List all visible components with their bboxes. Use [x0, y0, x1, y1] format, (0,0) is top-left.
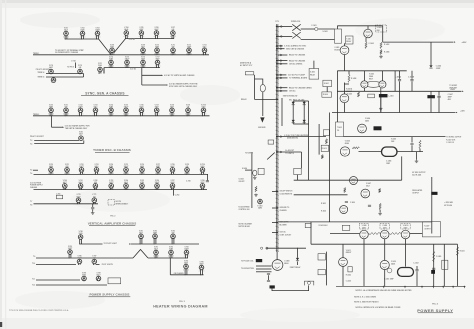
tube V-738 heater	[170, 108, 175, 116]
svg-text:6SN7: 6SN7	[139, 29, 143, 31]
resistor R-1429	[433, 251, 435, 262]
svg-text:B+ BOOST: B+ BOOST	[285, 150, 295, 152]
svg-text:T-8: T-8	[30, 204, 32, 206]
wire col a lower right	[433, 244, 435, 286]
wire reg right col	[431, 177, 433, 234]
tube pilot P-1401	[258, 199, 263, 204]
wire R-1416 bot	[419, 149, 421, 152]
wire V-1401A bottom	[343, 103, 345, 113]
svg-text:TO HORIZ. OUTPUT: TO HORIZ. OUTPUT	[446, 137, 461, 139]
svg-text:GROUND TO: GROUND TO	[280, 207, 290, 209]
wire V-1401 to rail	[344, 55, 346, 71]
tube V-1407c	[340, 206, 348, 214]
svg-text:6X30GT: 6X30GT	[334, 50, 340, 52]
wire strip stub y60.6	[278, 60, 287, 62]
terminal stub y63.8	[280, 63, 282, 65]
junction strip y60.6	[276, 60, 277, 61]
wire row-C left join	[103, 68, 105, 74]
svg-text:6SN7: 6SN7	[156, 166, 160, 168]
wire choke L-1403 col	[430, 98, 432, 112]
tube V-758 heater	[170, 168, 175, 175]
tube V-783 heater	[171, 234, 176, 244]
wire bridge top	[293, 100, 308, 102]
wire transformer top to rectifier	[337, 25, 382, 27]
svg-text:V-731: V-731	[64, 104, 68, 106]
svg-text:T-9: T-9	[33, 256, 35, 258]
svg-text:V-781: V-781	[139, 230, 143, 232]
wire stub 6.3 for tubes	[278, 136, 326, 138]
tube V-795 heater	[199, 265, 204, 275]
arrowhead +405V line	[454, 41, 456, 42]
wire left feeder col	[251, 152, 253, 208]
svg-text:TO UNIT B: TO UNIT B	[245, 153, 254, 155]
box K-1401 coil	[323, 80, 332, 86]
svg-text:CONTROL 500: CONTROL 500	[239, 209, 250, 211]
tube V-736 heater	[139, 108, 144, 116]
svg-text:POWER SUPPLY CHASSIS: POWER SUPPLY CHASSIS	[89, 293, 129, 297]
wire row-A left heater bus	[65, 38, 99, 40]
wire arrow line heater supply	[142, 84, 167, 86]
tube V-717 heater	[155, 60, 160, 68]
tube V-718 heater	[49, 69, 54, 74]
tube V-14010 series reg	[401, 230, 410, 239]
tube V-790 heater	[68, 250, 73, 259]
arrowhead section2	[63, 127, 65, 128]
tube V-709 heater	[141, 48, 146, 55]
caption underline section3	[89, 224, 135, 226]
wire section2 arrow line	[52, 126, 63, 128]
svg-text:V-753: V-753	[94, 164, 98, 166]
svg-text:6X8: 6X8	[172, 232, 175, 234]
svg-text:6.3V AC PILOT LAMP: 6.3V AC PILOT LAMP	[288, 74, 306, 77]
arrowhead heater supply	[167, 84, 169, 85]
svg-text:V-770: V-770	[76, 194, 80, 196]
wire section2 line b	[34, 143, 84, 145]
svg-text:PILOT LIGHTS: PILOT LIGHTS	[102, 264, 113, 266]
tube V-764 heater	[124, 184, 129, 191]
svg-text:V-718: V-718	[49, 65, 53, 67]
capacitor row G	[91, 208, 94, 209]
wire lamp drop	[262, 92, 264, 116]
svg-text:ON-OFF SWITCH: ON-OFF SWITCH	[280, 191, 294, 193]
label box V-1408	[359, 224, 368, 230]
svg-text:V-721: V-721	[98, 63, 102, 65]
arrowhead to vertical chassis	[162, 75, 164, 76]
wire B+405 line	[383, 41, 454, 43]
tube V-763 heater	[109, 184, 114, 191]
svg-text:V-710: V-710	[155, 44, 159, 46]
wire regulator grid line	[294, 179, 402, 181]
svg-text:115V AC UNREG.: 115V AC UNREG.	[289, 63, 303, 66]
svg-text:V-751: V-751	[65, 164, 69, 166]
choke L-1401	[379, 94, 388, 97]
terminal stub y77.9	[280, 77, 282, 79]
svg-text:6X8: 6X8	[66, 166, 69, 168]
wire choke L-1403 top	[430, 91, 432, 95]
capacitor under V-1409 b	[267, 280, 270, 281]
svg-text:V-707: V-707	[171, 27, 175, 29]
svg-text:NOTE 2. K = 1000 OHMS: NOTE 2. K = 1000 OHMS	[354, 297, 377, 299]
junction strip y208.0	[276, 207, 277, 208]
wire strip to interlock upper	[278, 26, 292, 28]
small part b top	[266, 247, 268, 249]
svg-text:T-11: T-11	[32, 278, 35, 280]
svg-text:6CB6: 6CB6	[109, 59, 113, 61]
box R-1430	[442, 260, 448, 269]
svg-text:V-708: V-708	[110, 44, 114, 46]
resistor R-1404	[380, 50, 382, 55]
svg-text:NOTE 1. ALL RESISTANCE VALUES: NOTE 1. ALL RESISTANCE VALUES IN OHMS UN…	[356, 289, 413, 292]
svg-text:6SN7: 6SN7	[156, 59, 160, 61]
wire interlock to fuse	[301, 28, 315, 30]
junction strip y99.4	[276, 99, 277, 100]
ground row G	[91, 212, 95, 215]
svg-text:.05MF: .05MF	[436, 68, 441, 70]
svg-text:T-3: T-3	[30, 140, 32, 142]
junction strip y136.6	[276, 136, 277, 137]
resistor R-1426	[389, 233, 401, 235]
wire main heater bus section2	[33, 115, 210, 117]
junction strip y48.7	[276, 48, 277, 49]
tube V-793 heater	[184, 250, 189, 258]
ground regulator	[378, 212, 382, 215]
resistor R-1414	[321, 155, 323, 159]
svg-text:V-780: V-780	[79, 231, 83, 233]
wire bridge bottom	[293, 123, 308, 125]
svg-text:GROUND: GROUND	[258, 127, 266, 129]
wire mid col b	[318, 124, 320, 155]
tube V-732 heater	[78, 108, 83, 116]
wire cap a to 285 rail	[399, 91, 401, 112]
wire regulator grid line2	[294, 194, 348, 196]
caption underline power supply	[418, 312, 453, 314]
svg-text:V-757: V-757	[156, 164, 160, 166]
junction strip y45.9	[276, 45, 277, 46]
svg-text:6SN7: 6SN7	[200, 264, 204, 266]
tube V-780 heater	[78, 235, 83, 245]
svg-text:6CB6: 6CB6	[169, 249, 173, 251]
diode CR-1401c	[292, 120, 295, 123]
svg-text:V-765: V-765	[140, 180, 144, 182]
wire lower stub y191.5	[272, 191, 276, 193]
svg-text:C-750: C-750	[186, 181, 191, 183]
svg-text:V-796: V-796	[77, 256, 81, 258]
svg-text:FIG. 2: FIG. 2	[110, 215, 115, 217]
capacitor C-1408	[410, 143, 413, 144]
svg-text:NOTE 3 BLOWER: NOTE 3 BLOWER	[239, 224, 253, 226]
wire V-720 stub	[75, 63, 77, 69]
box dashed row G right	[108, 200, 115, 206]
svg-text:V-783: V-783	[171, 230, 175, 232]
wire diagonal row-A right to bus	[114, 39, 126, 53]
svg-text:VERTICAL AMPLIFIER CHASSIS: VERTICAL AMPLIFIER CHASSIS	[88, 221, 137, 225]
choke L-1403	[427, 95, 435, 98]
svg-text:TO PILOT LIGHT: TO PILOT LIGHT	[104, 243, 118, 245]
svg-text:FIG. 4: FIG. 4	[432, 303, 438, 306]
diode CR-1401b	[303, 102, 306, 105]
tube V-7310 heater	[201, 108, 206, 116]
svg-text:V-750: V-750	[49, 164, 53, 166]
wire mid col a	[308, 101, 310, 180]
wire mid col c	[328, 113, 330, 222]
tube V-791 heater	[154, 250, 159, 258]
tube V-705 heater	[139, 31, 144, 39]
box next to lamp I-1403	[258, 168, 264, 174]
svg-text:T-10: T-10	[32, 263, 35, 265]
resistor R-1425	[369, 233, 381, 235]
svg-text:V-736: V-736	[139, 104, 143, 106]
svg-text:6J6: 6J6	[93, 258, 96, 260]
svg-text:6SN7: 6SN7	[155, 106, 159, 108]
svg-text:TO FOCUS COIL: TO FOCUS COIL	[241, 261, 253, 263]
wire bottom bus	[336, 285, 465, 287]
box R-1413	[321, 145, 328, 151]
wire section4 lower right	[170, 274, 203, 276]
terminal stub y45.9	[280, 45, 282, 47]
box C-1406	[323, 130, 329, 136]
wire section2 join	[83, 140, 85, 143]
svg-text:THE UNIT B CHASSIS ONLY: THE UNIT B CHASSIS ONLY	[65, 127, 88, 130]
svg-text:C-762: C-762	[175, 194, 180, 196]
svg-text:V-737: V-737	[155, 104, 159, 106]
tube V-1409 series reg	[380, 230, 389, 239]
wire +285V rail	[337, 90, 461, 92]
wire cap col b	[411, 71, 413, 79]
svg-text:V-762: V-762	[93, 180, 97, 182]
resistor R-1403	[380, 42, 382, 48]
terminal strip hatching	[276, 26, 279, 28]
wire section4 bus right	[148, 257, 188, 259]
switch interlock lower	[292, 32, 300, 38]
wire main heater bus section1	[33, 54, 209, 56]
tube V-7510 heater	[200, 168, 205, 175]
wire tube1 drop	[363, 239, 365, 286]
lamp I-1401	[260, 85, 265, 92]
svg-text:NOTE 4. INTERLOCK LOCATED ON R: NOTE 4. INTERLOCK LOCATED ON REAR COVER	[356, 306, 402, 309]
terminal lower	[280, 36, 282, 38]
ground mid filter	[379, 107, 383, 110]
tube V-714 heater	[109, 60, 114, 68]
wire heater bus row G	[34, 203, 99, 205]
wire lower stub y208.0	[272, 207, 276, 209]
wire strip stub y63.8	[278, 63, 287, 65]
svg-text:V-766: V-766	[155, 180, 159, 182]
svg-text:V-703: V-703	[95, 28, 99, 30]
wire below row F	[173, 190, 175, 196]
svg-text:6X8: 6X8	[172, 46, 175, 48]
junction strip y191.5	[276, 191, 277, 192]
terminal stub y55.0	[280, 54, 282, 56]
wire row E right drop	[206, 174, 208, 180]
box terminal block	[245, 72, 254, 75]
wire left group down	[254, 75, 256, 100]
svg-text:ON-OFF: ON-OFF	[239, 181, 245, 183]
svg-text:V-722: V-722	[51, 80, 55, 82]
wire lower stub y222.5	[272, 222, 276, 224]
svg-text:V-752: V-752	[79, 164, 83, 166]
svg-text:6X8: 6X8	[94, 182, 97, 184]
tube V-750 heater	[49, 168, 54, 175]
svg-text:HEATER WIRING DIAGRAM: HEATER WIRING DIAGRAM	[153, 305, 208, 309]
wire section4 bus left	[36, 257, 133, 259]
box section4 connector	[108, 278, 121, 284]
junction strip y232.5	[276, 232, 277, 233]
svg-text:INTERLOCK: INTERLOCK	[291, 21, 301, 23]
tube V-754 heater	[109, 168, 114, 175]
tube V-1403 5U4G section a	[361, 81, 368, 88]
wire R-1422 gnd	[379, 210, 381, 212]
junction bottom bus x433.3	[432, 286, 434, 288]
svg-text:V-712: V-712	[187, 44, 191, 46]
wire V-1403a top	[363, 71, 365, 81]
wire cap C-1408 bot	[411, 145, 413, 151]
svg-text:(SEE ABOVE): (SEE ABOVE)	[287, 136, 298, 139]
tube V-759 heater	[185, 168, 190, 175]
wire lower stub y232.5	[272, 232, 276, 234]
wire cap C-1408 top	[411, 137, 413, 143]
svg-text:V-799: V-799	[96, 273, 100, 275]
pilot lamp I-1402	[308, 281, 311, 284]
wire cap col a	[399, 71, 401, 79]
tube V-1404	[358, 124, 367, 133]
tube V-716 heater	[141, 60, 146, 68]
tube V-706 heater	[154, 31, 159, 39]
box small above series	[342, 225, 350, 230]
svg-text:V-756: V-756	[140, 164, 144, 166]
switch interlock upper	[292, 24, 300, 30]
terminal stub y60.6	[280, 60, 282, 62]
ground under V-1402	[379, 55, 383, 58]
wire row G drop2	[92, 209, 94, 211]
wire cap col b lower	[411, 81, 413, 91]
lamp I-1403	[253, 170, 257, 176]
wire C-1412 top	[416, 266, 418, 269]
svg-text:10MF: 10MF	[386, 163, 390, 165]
tube V-753 heater	[94, 168, 99, 175]
junction strip y74.9	[276, 74, 277, 75]
wire relay col mid	[326, 87, 328, 92]
wire row-C riser	[103, 68, 105, 74]
svg-text:V-701: V-701	[64, 28, 68, 30]
wire strip stub y45.9	[278, 45, 283, 47]
svg-text:V-732: V-732	[78, 104, 82, 106]
wire col b lower right	[443, 244, 445, 286]
svg-text:T-6: T-6	[30, 173, 32, 175]
tube V-713 heater	[202, 48, 207, 55]
wire V-1403b top	[381, 71, 383, 81]
svg-text:SYNC GEN. UNIT A CHASSIS ONLY: SYNC GEN. UNIT A CHASSIS ONLY	[169, 85, 198, 88]
wire boost drop	[301, 152, 303, 168]
wire V-1401A top	[343, 83, 345, 94]
wire series reg feed	[330, 233, 360, 235]
resistor R-1419	[344, 187, 346, 192]
tube V-712 heater	[187, 48, 192, 55]
box R-1431	[318, 254, 325, 260]
svg-text:T750 5/74 1REL/230308B PHILC: T750 5/74 1REL/230308B PHILCO-FORD CORP …	[9, 309, 69, 312]
tube V-708 heater	[110, 48, 115, 55]
junction strip y36.4	[276, 36, 277, 37]
terminal strip line b	[277, 24, 279, 252]
svg-text:6CB6: 6CB6	[140, 182, 144, 184]
wire lamp I-1403 stem	[254, 175, 256, 177]
arrowhead +285V rail	[462, 91, 464, 92]
svg-text:6CB6: 6CB6	[109, 166, 113, 168]
tube V-737 heater	[154, 108, 159, 116]
wire V-1411 top	[342, 244, 344, 257]
capacitor C-1410	[368, 205, 371, 206]
svg-text:V-717: V-717	[155, 57, 159, 59]
junction strip y87.7	[276, 87, 277, 88]
svg-text:V-758: V-758	[170, 164, 174, 166]
wire section4 row2b	[96, 264, 100, 266]
wire oval to caps	[397, 151, 423, 153]
svg-text:J-750: J-750	[56, 193, 60, 195]
ground filled triangle	[260, 117, 264, 122]
wire section2 drop	[51, 116, 53, 127]
wire transformer top stub	[336, 26, 338, 29]
wire V-1402 cathode drop	[365, 38, 367, 42]
choke L-1404	[374, 126, 382, 130]
wire deflection line2	[256, 271, 272, 273]
svg-text:V-7510: V-7510	[200, 164, 205, 166]
wire start diode bottom	[297, 262, 299, 266]
resistor R-1416	[419, 140, 421, 149]
svg-text:POWER SUPPLY: POWER SUPPLY	[417, 308, 453, 313]
wire C-1407 col bottom	[438, 98, 440, 113]
wire section4 right drop	[169, 258, 171, 275]
wire V-1405 to oval	[359, 151, 382, 153]
diode CR-1401a	[292, 102, 295, 105]
svg-text:T-12: T-12	[32, 285, 35, 287]
tube V-766 heater	[155, 184, 160, 191]
svg-text:6.3V AC (UNREG) TO SYNC: 6.3V AC (UNREG) TO SYNC	[284, 45, 307, 48]
tube V-771 heater	[92, 198, 97, 204]
svg-text:V-730: V-730	[49, 104, 53, 106]
envelope V-1403	[368, 82, 380, 88]
wire bridge feed	[281, 98, 283, 126]
caption underline section2	[95, 151, 130, 153]
wire tube3 drop	[405, 239, 407, 267]
svg-text:V-771: V-771	[92, 194, 96, 196]
tube V-731 heater	[64, 108, 69, 116]
wire interlock lower to transformer	[301, 39, 335, 41]
svg-text:INTERCONNECT: INTERCONNECT	[116, 203, 129, 205]
wire lamp top	[255, 79, 263, 85]
svg-text:TO HORIZ: TO HORIZ	[449, 85, 457, 87]
tube V-1405	[340, 147, 349, 156]
box under V-1411	[348, 267, 352, 272]
tube V-710 heater	[155, 48, 160, 55]
svg-text:V-768: V-768	[200, 180, 204, 182]
svg-text:TUNER OSC. B CHASSIS: TUNER OSC. B CHASSIS	[93, 148, 131, 152]
svg-text:V-706: V-706	[154, 27, 158, 29]
svg-text:V-755: V-755	[124, 164, 128, 166]
tube V-711 heater	[171, 48, 176, 55]
wire strip stub y55.0	[278, 54, 287, 56]
junction strip y152.0	[276, 151, 277, 152]
svg-text:V-759: V-759	[185, 164, 189, 166]
diode feed bottom	[429, 65, 432, 68]
wire cap col a lower	[399, 81, 401, 91]
svg-text:V-739: V-739	[186, 104, 190, 106]
svg-text:RELAY TO CHASSIS: RELAY TO CHASSIS	[289, 54, 306, 57]
tube V-760 heater	[63, 184, 68, 191]
svg-text:V-713: V-713	[202, 44, 206, 46]
tube V-734 heater	[109, 108, 114, 116]
transformer T-1401 primary	[335, 29, 342, 43]
tube V-798 heater	[82, 276, 87, 281]
tube V-799 heater	[96, 276, 101, 281]
